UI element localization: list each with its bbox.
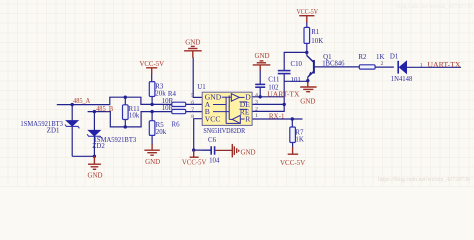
- svg-text:R7: R7: [295, 130, 304, 137]
- svg-text:VCC-5V: VCC-5V: [297, 8, 319, 16]
- svg-text:C11: C11: [268, 77, 280, 84]
- svg-text:GND: GND: [185, 38, 200, 46]
- svg-text:1K: 1K: [376, 54, 384, 61]
- svg-text:UART-TX: UART-TX: [427, 61, 460, 69]
- svg-text:101: 101: [291, 77, 302, 84]
- svg-text:R6: R6: [172, 122, 181, 129]
- svg-text:104: 104: [209, 158, 220, 165]
- svg-text:1: 1: [255, 113, 258, 119]
- svg-text:6: 6: [191, 100, 194, 106]
- svg-text:20k: 20k: [156, 129, 167, 136]
- svg-text:10R: 10R: [162, 105, 174, 112]
- svg-text:R1: R1: [311, 29, 320, 36]
- svg-text:485_A: 485_A: [73, 97, 90, 105]
- svg-text:VCC-5V: VCC-5V: [140, 60, 165, 68]
- svg-text:2: 2: [381, 61, 384, 67]
- svg-text:GND: GND: [255, 52, 270, 60]
- svg-text:3: 3: [255, 99, 258, 105]
- svg-text:D1: D1: [390, 54, 399, 61]
- svg-text:10K: 10K: [311, 38, 323, 45]
- svg-text:R5: R5: [156, 122, 165, 129]
- svg-text:485_B: 485_B: [96, 105, 113, 113]
- svg-text:ZD2: ZD2: [92, 143, 105, 150]
- svg-text:8: 8: [191, 114, 194, 120]
- svg-text:RX-1: RX-1: [269, 112, 285, 120]
- svg-text:GND: GND: [145, 158, 160, 166]
- svg-text:VCC-5V: VCC-5V: [280, 159, 305, 167]
- svg-text:C10: C10: [291, 61, 303, 68]
- svg-text:U1: U1: [197, 84, 206, 91]
- svg-text:1N4148: 1N4148: [391, 76, 413, 83]
- svg-text:GND: GND: [88, 171, 103, 179]
- svg-text:blog.csdn.net/weixin_43729730: blog.csdn.net/weixin_43729730: [396, 4, 472, 10]
- svg-text:1K: 1K: [295, 137, 303, 144]
- svg-text:C6: C6: [208, 137, 217, 144]
- svg-text:ZD1: ZD1: [47, 127, 60, 134]
- svg-text:2: 2: [255, 106, 258, 112]
- svg-text:UART-TX: UART-TX: [267, 90, 299, 98]
- svg-text:VCC-5V: VCC-5V: [182, 158, 207, 166]
- svg-text:1: 1: [420, 62, 423, 68]
- svg-text:1BC846: 1BC846: [322, 61, 345, 68]
- svg-text:7: 7: [191, 107, 194, 113]
- svg-text:10k: 10k: [129, 113, 140, 120]
- svg-text:R2: R2: [358, 54, 367, 61]
- svg-text:5: 5: [191, 93, 194, 99]
- svg-text:SN65HVD82DR: SN65HVD82DR: [203, 128, 245, 135]
- svg-text:10R: 10R: [162, 98, 174, 105]
- svg-text:R3: R3: [155, 83, 164, 90]
- svg-text:VCC: VCC: [205, 115, 221, 124]
- svg-text:4: 4: [255, 93, 258, 99]
- svg-text:https://blog.csdn.net/weixin_4: https://blog.csdn.net/weixin_43729730: [378, 176, 470, 183]
- svg-text:20k: 20k: [155, 90, 166, 97]
- svg-text:GND: GND: [241, 148, 256, 156]
- svg-text:GND: GND: [300, 97, 315, 105]
